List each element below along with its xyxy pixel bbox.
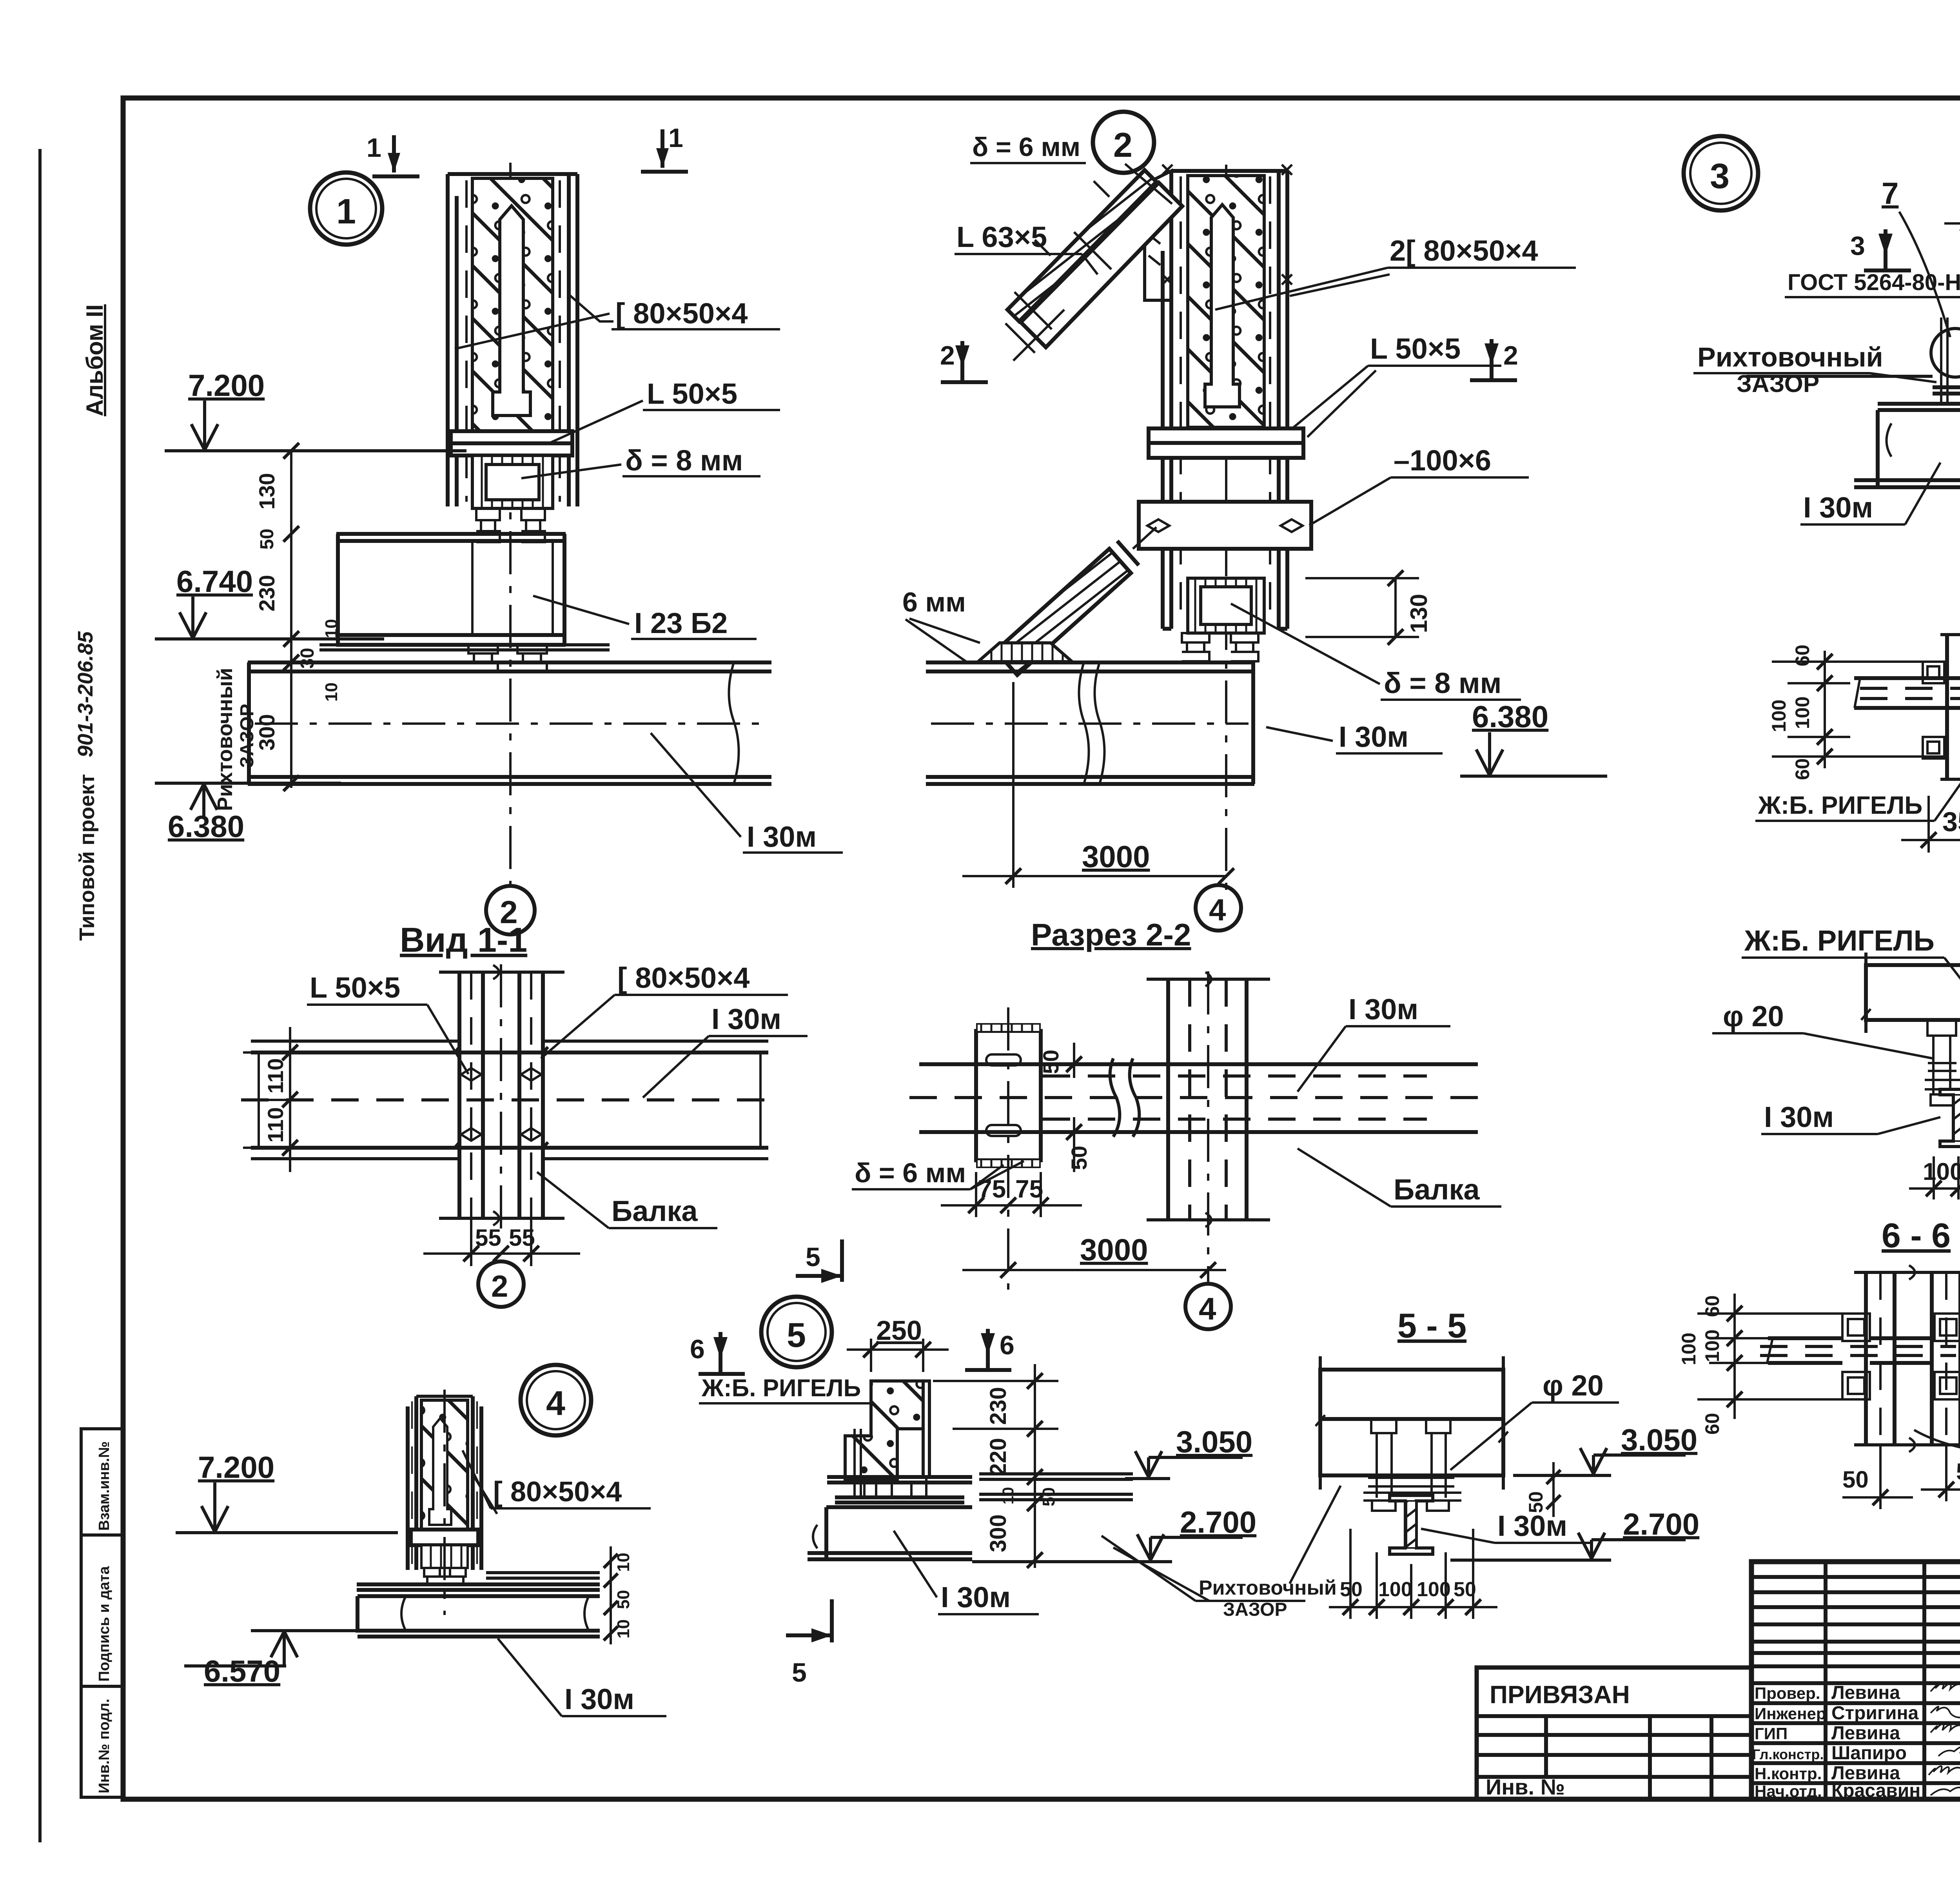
leader I30M sec55 bbox=[1421, 1510, 1592, 1543]
anchor bolts under base bbox=[476, 508, 545, 542]
richt label node3 bbox=[1693, 342, 1936, 397]
node2 base plate upper bbox=[1149, 428, 1303, 458]
svg-text:Альбом II: Альбом II bbox=[82, 304, 108, 416]
stamp left columns bbox=[1826, 1562, 1960, 1799]
svg-text:–100×6: –100×6 bbox=[1394, 444, 1491, 477]
leader GOST bbox=[1785, 270, 1960, 344]
view11 vertical rails bbox=[439, 964, 564, 1235]
sec55 rigel rect bbox=[1316, 1356, 1508, 1490]
node 3 bubble bbox=[1684, 136, 1758, 210]
leader I30M sec22 bbox=[1298, 993, 1450, 1092]
view11 axis bubble 2 bbox=[478, 1261, 524, 1307]
svg-text:I 23 Б2: I 23 Б2 bbox=[634, 607, 728, 639]
leader b=6mm top bbox=[970, 132, 1172, 204]
svg-text:Гл.констр.: Гл.констр. bbox=[1752, 1746, 1824, 1762]
richt label node5 bbox=[1102, 1536, 1337, 1620]
svg-text:I 30м: I 30м bbox=[1339, 720, 1408, 753]
leader I30M node4 bbox=[498, 1639, 666, 1716]
svg-text:δ = 8 мм: δ = 8 мм bbox=[625, 444, 743, 477]
svg-text:Рихтовочный: Рихтовочный bbox=[1199, 1577, 1337, 1599]
leader phi20 sec44 bbox=[1712, 1000, 1933, 1058]
svg-text:Взам.инв.№: Взам.инв.№ bbox=[96, 1441, 113, 1531]
view 1-1 bbox=[241, 920, 808, 1307]
svg-text:250: 250 bbox=[876, 1315, 922, 1346]
svg-text:10: 10 bbox=[322, 682, 341, 702]
svg-text:5 - 5: 5 - 5 bbox=[1397, 1306, 1466, 1345]
leader 2C80x50x4 bbox=[1215, 234, 1576, 310]
node4 beams right bbox=[357, 1573, 600, 1637]
svg-text:110: 110 bbox=[263, 1058, 288, 1094]
svg-text:Ж:Б. РИГЕЛЬ: Ж:Б. РИГЕЛЬ bbox=[701, 1375, 861, 1402]
node2 brace base wedge bbox=[978, 643, 1072, 662]
svg-text:I 30м: I 30м bbox=[564, 1683, 634, 1715]
svg-text:60: 60 bbox=[1701, 1295, 1723, 1317]
sec55 I beam section bbox=[1390, 1495, 1433, 1554]
section mark 5 top bbox=[796, 1239, 842, 1283]
svg-text:ГИП: ГИП bbox=[1755, 1724, 1788, 1743]
leader I23B2 bbox=[533, 596, 757, 639]
svg-text:350: 350 bbox=[1942, 806, 1960, 837]
svg-text:Ж:Б. РИГЕЛЬ: Ж:Б. РИГЕЛЬ bbox=[1758, 791, 1922, 819]
sec33 dims 350 350 bbox=[1901, 796, 1960, 853]
leader -100x6 bbox=[1309, 444, 1529, 525]
level 2.700 node5 bbox=[972, 1505, 1256, 1562]
sec22 column rails bbox=[1147, 971, 1270, 1282]
svg-text:ГОСТ 5264-80-Н1-Δ6Т: ГОСТ 5264-80-Н1-Δ6Т bbox=[1788, 270, 1960, 295]
svg-text:50: 50 bbox=[1956, 1459, 1960, 1485]
level 3.050 node5 bbox=[1125, 1424, 1252, 1479]
title block bbox=[1477, 1562, 1960, 1851]
svg-text:2: 2 bbox=[940, 341, 955, 370]
dim 130 node2 bbox=[1305, 570, 1432, 645]
privyazan table bbox=[1477, 1668, 1751, 1799]
svg-text:10: 10 bbox=[614, 1553, 633, 1572]
node2 plate -100x6 bbox=[1139, 502, 1311, 549]
svg-text:100: 100 bbox=[1701, 1330, 1723, 1362]
sec66 rails bbox=[1854, 1265, 1960, 1452]
sec33 rails bbox=[1940, 614, 1960, 847]
svg-text:50: 50 bbox=[1340, 1578, 1363, 1601]
svg-text:Шапиро: Шапиро bbox=[1831, 1743, 1907, 1764]
sec22 axis bubble 4 bottom bbox=[1185, 1284, 1231, 1329]
svg-text:1: 1 bbox=[336, 192, 356, 231]
node2 top gusset plate bbox=[1145, 171, 1171, 300]
dim chain node1 left bbox=[254, 443, 341, 791]
margin label 901-3-206.85 bbox=[74, 631, 97, 757]
richt gap lines bbox=[319, 645, 610, 650]
svg-text:2.700: 2.700 bbox=[1180, 1505, 1256, 1539]
section 6-6 bbox=[1678, 1216, 1960, 1509]
svg-text:3000: 3000 bbox=[1080, 1232, 1148, 1267]
dim 3000 node2 bbox=[962, 682, 1234, 888]
svg-text:[ 80×50×4: [ 80×50×4 bbox=[615, 297, 748, 330]
svg-text:6.380: 6.380 bbox=[168, 809, 244, 844]
leader L50x5 node2 bbox=[1294, 332, 1501, 437]
level 3.050 sec55 bbox=[1513, 1423, 1697, 1475]
leader b=8mm node2 bbox=[1231, 604, 1521, 700]
column centerline bbox=[509, 163, 512, 885]
view11 bottom dims 55 55 bbox=[423, 1220, 580, 1266]
sec66 bottom dims 50 50 bbox=[1842, 1446, 1960, 1509]
sec22 plate with slots bbox=[976, 1007, 1041, 1290]
sec55 hanger bolts bbox=[1363, 1419, 1461, 1511]
leader I30M sec44 bbox=[1761, 1101, 1940, 1134]
section mark 2 left bbox=[940, 341, 988, 382]
section 2-2 bbox=[852, 917, 1501, 1329]
column base plate L50x5 bbox=[451, 431, 572, 455]
sec33 left dim chain bbox=[1768, 644, 1944, 780]
node 4 bubble bbox=[521, 1365, 591, 1435]
svg-text:δ = 8 мм: δ = 8 мм bbox=[1384, 667, 1501, 699]
signature labels bbox=[1752, 1682, 1920, 1801]
sec22 dims 75 75 bbox=[941, 1172, 1082, 1217]
svg-text:3: 3 bbox=[1850, 231, 1865, 261]
bolted joint between beams bbox=[468, 645, 547, 671]
svg-text:Разрез 2-2: Разрез 2-2 bbox=[1031, 917, 1191, 952]
sec66 beam dashed bbox=[1760, 1338, 1956, 1363]
svg-text:ПРИВЯЗАН: ПРИВЯЗАН bbox=[1490, 1680, 1630, 1709]
level mark 7.200 bbox=[165, 368, 466, 451]
svg-text:δ = 6 мм: δ = 6 мм bbox=[855, 1158, 966, 1188]
section 5-5 bbox=[1290, 1306, 1699, 1619]
svg-text:Инв.№ подл.: Инв.№ подл. bbox=[96, 1698, 113, 1793]
svg-text:110: 110 bbox=[263, 1107, 288, 1143]
beam I23B2 bbox=[336, 534, 566, 645]
svg-text:75: 75 bbox=[1015, 1175, 1043, 1203]
svg-text:6.570: 6.570 bbox=[204, 1654, 280, 1688]
svg-text:6: 6 bbox=[690, 1334, 705, 1364]
leader L50x5 view11 bbox=[307, 971, 468, 1074]
svg-text:L 50×5: L 50×5 bbox=[310, 971, 400, 1004]
svg-text:Типовой проект: Типовой проект bbox=[75, 774, 99, 941]
leader Balka view11 bbox=[537, 1172, 717, 1228]
node3 crane beam I30M bbox=[1854, 220, 1960, 521]
stamp left thin rows bbox=[1751, 1577, 1960, 1783]
svg-text:100: 100 bbox=[1378, 1578, 1412, 1601]
node 2 bubble bbox=[1093, 112, 1154, 173]
node 1 detail bbox=[155, 123, 843, 934]
svg-text:Рихтовочный: Рихтовочный bbox=[1697, 342, 1883, 372]
level 6.380 node2 bbox=[1460, 699, 1607, 776]
leader Balka sec22 bbox=[1298, 1149, 1501, 1207]
svg-text:300: 300 bbox=[254, 714, 279, 751]
svg-text:7: 7 bbox=[1882, 176, 1898, 210]
svg-text:Левина: Левина bbox=[1831, 1723, 1900, 1744]
leader ZhB rigel sec33 bbox=[1755, 743, 1960, 821]
svg-text:Левина: Левина bbox=[1831, 1682, 1900, 1703]
svg-text:6 мм: 6 мм bbox=[902, 587, 966, 617]
svg-text:2.700: 2.700 bbox=[1623, 1507, 1699, 1541]
svg-text:Ж:Б. РИГЕЛЬ: Ж:Б. РИГЕЛЬ bbox=[1744, 924, 1935, 957]
svg-text:130: 130 bbox=[254, 473, 279, 510]
svg-text:L 63×5: L 63×5 bbox=[956, 221, 1047, 253]
svg-text:Инженер: Инженер bbox=[1755, 1704, 1826, 1723]
node5 beam I30M bbox=[808, 1507, 972, 1559]
svg-text:φ 20: φ 20 bbox=[1723, 1000, 1784, 1032]
node5 rail connection bbox=[827, 1474, 1133, 1502]
sec33 beam dashed bbox=[1854, 678, 1960, 708]
svg-text:3.050: 3.050 bbox=[1621, 1423, 1697, 1457]
sec55 dim 50 right bbox=[1525, 1462, 1561, 1517]
signatures cursive bbox=[1929, 1682, 1960, 1795]
richt gap label node1 bbox=[213, 668, 258, 811]
sec44 I beam section bbox=[1940, 1089, 1960, 1147]
node3 rail lines bbox=[1746, 376, 1960, 410]
section mark 5 bottom bbox=[786, 1599, 832, 1688]
section 4-4 bbox=[1712, 892, 1960, 1199]
svg-text:3000: 3000 bbox=[1082, 839, 1150, 874]
margin label typovoy proekt bbox=[75, 774, 99, 941]
svg-text:60: 60 bbox=[1701, 1413, 1723, 1435]
svg-text:220: 220 bbox=[985, 1438, 1011, 1476]
section 3-3 bbox=[1755, 571, 1960, 853]
svg-text:50: 50 bbox=[1842, 1466, 1869, 1493]
svg-text:60: 60 bbox=[1791, 644, 1813, 666]
leader b=6mm sec22 bbox=[852, 1158, 1024, 1189]
leader phi20 sec55 bbox=[1450, 1369, 1619, 1470]
leader L50x5 bbox=[549, 377, 780, 443]
view11 left dims bbox=[243, 1027, 314, 1172]
view11 bolts diamonds bbox=[461, 1068, 541, 1141]
margin label Album II bbox=[82, 304, 108, 416]
svg-text:ЗАЗОР: ЗАЗОР bbox=[1223, 1599, 1287, 1620]
node2 base block bbox=[1188, 578, 1264, 633]
svg-text:[ 80×50×4: [ 80×50×4 bbox=[493, 1476, 622, 1508]
svg-text:Вид 1-1: Вид 1-1 bbox=[400, 920, 527, 959]
svg-text:6 - 6: 6 - 6 bbox=[1882, 1216, 1951, 1255]
svg-text:I 30м: I 30м bbox=[747, 820, 817, 853]
node 4 detail bbox=[176, 1365, 666, 1716]
leader I30M node1 bbox=[651, 733, 843, 853]
svg-text:10: 10 bbox=[322, 619, 341, 638]
node5 right plate bbox=[923, 1381, 929, 1499]
column base block (b=8mm) bbox=[472, 455, 553, 508]
svg-text:901-3-206.85: 901-3-206.85 bbox=[74, 631, 97, 757]
svg-text:Подпись и дата: Подпись и дата bbox=[96, 1566, 113, 1682]
node2 column channels bbox=[1163, 171, 1287, 629]
svg-text:230: 230 bbox=[985, 1387, 1011, 1425]
node 1 bubble bbox=[310, 172, 382, 245]
svg-text:I 30м: I 30м bbox=[1497, 1510, 1567, 1542]
node2 joint bolts bbox=[1182, 633, 1258, 661]
svg-text:6.740: 6.740 bbox=[176, 564, 253, 599]
section mark 1 right bbox=[641, 123, 688, 172]
svg-text:100: 100 bbox=[1923, 1158, 1960, 1185]
svg-text:300: 300 bbox=[985, 1514, 1011, 1552]
node 5 bubble bbox=[761, 1297, 832, 1367]
svg-text:100: 100 bbox=[1768, 700, 1790, 732]
svg-text:50: 50 bbox=[614, 1590, 633, 1609]
leader L63x5 top bbox=[955, 221, 1098, 274]
leader I30M node2 bbox=[1266, 720, 1443, 753]
section mark 6 left bbox=[690, 1332, 745, 1374]
leader channel 80x50x4 bbox=[455, 295, 780, 349]
svg-text:I 30м: I 30м bbox=[1803, 491, 1873, 524]
leader I30M node3 bbox=[1800, 463, 1940, 524]
svg-text:6.380: 6.380 bbox=[1472, 699, 1548, 734]
svg-text:3.050: 3.050 bbox=[1176, 1424, 1252, 1459]
svg-text:60: 60 bbox=[1791, 758, 1813, 780]
svg-text:130: 130 bbox=[1406, 594, 1432, 633]
svg-text:75: 75 bbox=[978, 1175, 1006, 1203]
level mark 6.740 bbox=[155, 564, 384, 639]
left outer thin line bbox=[38, 149, 42, 1842]
svg-text:50: 50 bbox=[1454, 1578, 1476, 1601]
crane beam I30M node1 bbox=[248, 662, 771, 784]
svg-text:7.200: 7.200 bbox=[188, 368, 265, 403]
svg-text:Н.контр.: Н.контр. bbox=[1755, 1764, 1822, 1783]
svg-text:Нач.отд.: Нач.отд. bbox=[1755, 1782, 1822, 1800]
svg-text:50: 50 bbox=[1038, 1050, 1063, 1074]
svg-text:2: 2 bbox=[491, 1269, 508, 1303]
node3 anchor pins bbox=[1941, 318, 1960, 404]
svg-text:55: 55 bbox=[475, 1225, 501, 1251]
svg-text:I 30м: I 30м bbox=[1348, 993, 1418, 1025]
svg-text:10: 10 bbox=[1000, 1487, 1017, 1505]
svg-text:δ = 6 мм: δ = 6 мм bbox=[972, 132, 1080, 162]
stamp box inv no podl bbox=[81, 1686, 123, 1797]
node 3 detail bbox=[1684, 109, 1960, 543]
node4 column bbox=[408, 1390, 481, 1615]
svg-text:5: 5 bbox=[787, 1316, 806, 1354]
level 6.570 node4 bbox=[184, 1631, 427, 1688]
leader b=8mm bbox=[521, 444, 760, 478]
leader I30M node5 bbox=[894, 1531, 1039, 1614]
node2 lower brace bbox=[996, 527, 1156, 675]
leader C80x50x4 node4 bbox=[463, 1450, 651, 1514]
sec22 dims 50 50 bbox=[1038, 1043, 1091, 1172]
node 2 detail bbox=[902, 112, 1607, 931]
leader b=6mm lower bbox=[902, 587, 980, 662]
leader ZhB rigel sec66 bbox=[1914, 1421, 1960, 1455]
main stamp outer bbox=[1751, 1562, 1960, 1799]
column concrete core hatched bbox=[472, 178, 553, 431]
svg-text:5: 5 bbox=[792, 1658, 807, 1688]
svg-text:Инв. №: Инв. № bbox=[1486, 1775, 1565, 1799]
sec22 dim 3000 bbox=[962, 1232, 1226, 1278]
sec44 bottom dims 100 100 bbox=[1909, 1156, 1960, 1199]
svg-text:55: 55 bbox=[509, 1225, 535, 1251]
column axis bubble 2 bbox=[486, 886, 535, 934]
svg-text:5: 5 bbox=[806, 1242, 820, 1272]
node5 concrete block bbox=[845, 1381, 923, 1479]
level 2.700 sec55 bbox=[1450, 1507, 1699, 1560]
svg-text:1: 1 bbox=[367, 133, 381, 163]
svg-text:4: 4 bbox=[1209, 893, 1226, 927]
svg-text:230: 230 bbox=[254, 575, 279, 611]
svg-text:[ 80×50×4: [ 80×50×4 bbox=[617, 962, 750, 994]
node2 weld X marks top bbox=[1162, 165, 1292, 285]
dim 300 node3 bbox=[1944, 187, 1960, 274]
stamp box vzam inv bbox=[81, 1429, 123, 1535]
svg-text:I 30м: I 30м bbox=[1764, 1101, 1834, 1133]
svg-text:L 50×5: L 50×5 bbox=[647, 377, 737, 410]
node2 axis bubble 4 bbox=[1196, 885, 1241, 931]
sec66 clips bbox=[1842, 1314, 1960, 1399]
svg-text:2: 2 bbox=[1113, 125, 1132, 164]
sec44 rigel rect bbox=[1861, 953, 1960, 1033]
leader richt sec55 (from node5 text) bbox=[1290, 1486, 1341, 1584]
sec33 corner clips bbox=[1923, 662, 1960, 758]
svg-text:Провер.: Провер. bbox=[1755, 1684, 1820, 1702]
node5 right dim chain bbox=[933, 1364, 1058, 1568]
svg-text:Красавин: Красавин bbox=[1831, 1780, 1920, 1801]
svg-text:7.200: 7.200 bbox=[198, 1450, 274, 1484]
node 5 detail bbox=[690, 1239, 1337, 1688]
svg-text:Балка: Балка bbox=[612, 1195, 698, 1227]
svg-text:ЗАЗОР: ЗАЗОР bbox=[1737, 370, 1819, 397]
svg-text:1: 1 bbox=[668, 123, 683, 153]
node2 crane beam I30M bbox=[926, 662, 1254, 784]
column channels outer bbox=[448, 174, 577, 506]
node2 concrete core bbox=[1188, 176, 1264, 427]
section mark 3 left bbox=[1850, 229, 1911, 270]
leader C80x50x4 view11 bbox=[541, 962, 788, 1058]
svg-text:100: 100 bbox=[1417, 1578, 1451, 1601]
svg-text:2[ 80×50×4: 2[ 80×50×4 bbox=[1390, 234, 1538, 267]
node4 right small dims bbox=[604, 1546, 633, 1644]
svg-text:100: 100 bbox=[1791, 697, 1813, 729]
svg-text:30: 30 bbox=[297, 648, 318, 669]
level 7.200 node4 bbox=[176, 1450, 398, 1533]
leader ZhB rigel sec44 bbox=[1742, 924, 1960, 996]
sec66 left dim chain bbox=[1678, 1294, 1858, 1435]
node5 left pin bbox=[855, 1429, 861, 1499]
svg-text:I 30м: I 30м bbox=[941, 1581, 1011, 1613]
svg-text:4: 4 bbox=[1199, 1291, 1216, 1326]
sec55 bottom dims bbox=[1329, 1529, 1497, 1619]
svg-text:3: 3 bbox=[1710, 157, 1730, 196]
svg-text:L 50×5: L 50×5 bbox=[1370, 332, 1461, 365]
node5 dim 250 top bbox=[847, 1315, 949, 1372]
svg-text:2: 2 bbox=[1503, 341, 1518, 370]
level mark 6.380 bbox=[155, 783, 341, 844]
leader I30M view11 bbox=[643, 1003, 808, 1098]
svg-text:φ 20: φ 20 bbox=[1543, 1369, 1604, 1402]
svg-text:Рихтовочный: Рихтовочный bbox=[213, 668, 237, 811]
sec44 hanger bolts bbox=[1925, 1020, 1960, 1105]
svg-text:4: 4 bbox=[546, 1384, 565, 1423]
view11 beam horizontal bbox=[241, 1041, 780, 1159]
node2 column centerline bbox=[1225, 165, 1227, 890]
svg-text:50: 50 bbox=[1067, 1146, 1091, 1170]
section mark 1 left bbox=[367, 133, 419, 176]
section mark 2 right bbox=[1470, 339, 1518, 380]
sec22 beam dashed bbox=[909, 1058, 1490, 1137]
svg-text:100: 100 bbox=[1678, 1333, 1700, 1365]
svg-text:I 30м: I 30м bbox=[711, 1003, 781, 1035]
section mark 6 right bbox=[965, 1329, 1014, 1370]
svg-text:50: 50 bbox=[257, 529, 278, 550]
stamp box podpis i data bbox=[81, 1535, 123, 1686]
node2 upper brace L63x5 bbox=[1005, 170, 1182, 361]
svg-text:Стригина: Стригина bbox=[1831, 1703, 1918, 1724]
svg-text:Балка: Балка bbox=[1394, 1173, 1480, 1206]
svg-text:50: 50 bbox=[1039, 1487, 1058, 1506]
svg-text:10: 10 bbox=[614, 1619, 633, 1639]
detail 7 callout bbox=[1882, 176, 1960, 377]
svg-text:6: 6 bbox=[1000, 1330, 1014, 1360]
leader ZhB rigel node5 bbox=[699, 1375, 871, 1403]
